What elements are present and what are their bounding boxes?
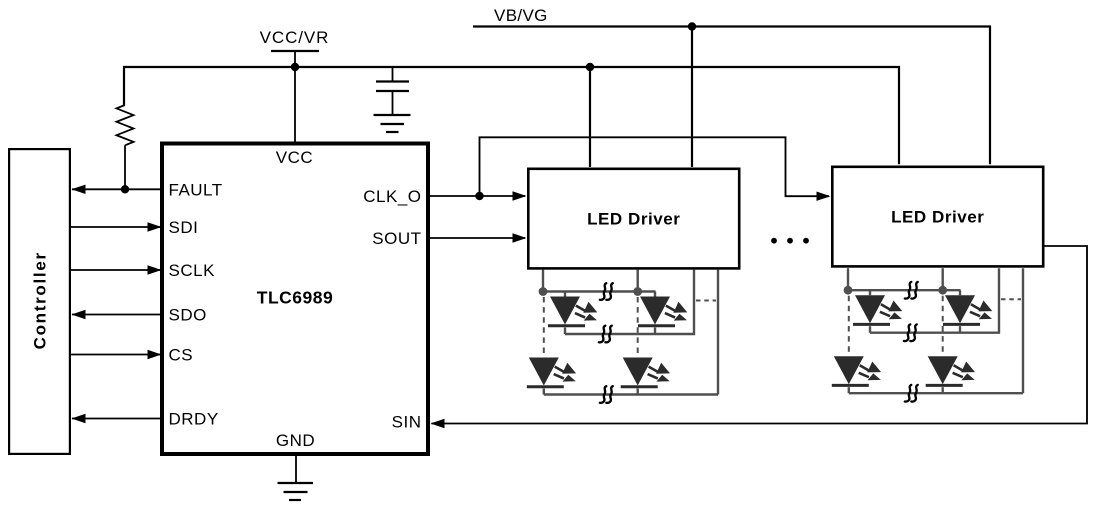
wire matrix1 dashed column B <box>637 297 639 358</box>
LED D8 <box>926 356 975 385</box>
arrow CLK_O into LED driver 1 <box>513 191 527 200</box>
break mark matrix1 cathode row 2 <box>600 386 613 403</box>
wire cathode stub LED3 <box>543 389 545 395</box>
wire anode stub LED2 <box>654 292 656 297</box>
node CLK_O junction <box>475 192 483 200</box>
wire VB/VG rail <box>473 27 990 165</box>
svg-text:SCLK: SCLK <box>169 261 216 280</box>
LED D6 <box>943 295 992 324</box>
wire FAULT <box>72 188 162 190</box>
break mark matrix1 anode row <box>600 283 613 300</box>
wire SDI <box>71 226 160 228</box>
wire cathode stub LED6 <box>959 326 961 333</box>
wire matrix1 dashed continuation row <box>696 300 716 302</box>
svg-text:TLC6989: TLC6989 <box>257 288 333 308</box>
LED D3 <box>527 358 576 387</box>
LED D5 <box>853 295 902 324</box>
wire matrix2 anode row <box>848 289 961 291</box>
wire anode stub LED5 <box>869 290 871 295</box>
resistor R1 <box>117 105 134 145</box>
LED D1 <box>548 297 597 326</box>
wire matrix1 right column <box>717 270 719 395</box>
arrow SCLK into TLC6989 <box>148 265 162 274</box>
ellipsis continuation dots <box>771 238 809 244</box>
wire VCC rail <box>124 67 899 164</box>
node matrix1 dot B <box>633 287 642 296</box>
LED matrix 1 <box>527 270 718 403</box>
op-amp U1 TLC6989 box <box>162 144 428 455</box>
wire matrix2 column B <box>942 268 944 290</box>
ground at capacitor <box>374 115 411 132</box>
LED driver 1 box <box>528 169 739 269</box>
svg-text:CS: CS <box>169 346 194 365</box>
svg-text:Controller: Controller <box>31 251 50 349</box>
break mark matrix2 cathode row 1 <box>904 324 917 341</box>
arrow FAULT into controller <box>72 185 86 194</box>
wire SIN return from LED driver 2 <box>432 246 1088 424</box>
node junction on VB/VG rail <box>688 22 696 30</box>
wire matrix1 dashed column A <box>543 297 545 358</box>
svg-text:VCC: VCC <box>276 148 313 167</box>
wire matrix1 cathode row 2 <box>544 393 718 395</box>
wire VCC to TLC6989 <box>294 67 296 142</box>
LED D2 <box>638 297 687 326</box>
wire matrix2 dashed column A <box>848 296 850 357</box>
wire matrix2 right column <box>1022 268 1024 393</box>
wire VCC to LED driver 1 <box>589 67 591 167</box>
svg-text:SDI: SDI <box>169 218 199 237</box>
wire cathode stub LED8 <box>942 387 944 393</box>
wire cathode stub LED4 <box>637 389 639 395</box>
wire matrix2 dashed continuation row <box>1001 298 1021 300</box>
wire cathode stub LED7 <box>848 387 850 393</box>
arrow SIN into TLC6989 <box>431 419 445 428</box>
break mark matrix1 cathode row 1 <box>599 326 612 343</box>
arrow CLK into LED driver 2 <box>817 192 831 201</box>
wire cathode stub LED5 <box>869 326 871 333</box>
wire GND stub of TLC6989 <box>295 456 297 483</box>
svg-text:LED Driver: LED Driver <box>891 208 984 227</box>
wire CLK_O to LED driver 1 <box>430 195 525 197</box>
wire matrix2 column A <box>847 268 849 290</box>
supply bar VCC/VR <box>271 50 319 52</box>
node VCC stub junction <box>291 63 299 71</box>
node matrix1 dot A <box>539 287 548 296</box>
wire cathode stub LED2 <box>654 328 656 335</box>
LED driver 2 box <box>832 167 1043 267</box>
svg-text:SOUT: SOUT <box>372 229 421 248</box>
wire matrix2 dashed column B <box>942 296 944 357</box>
wire SCLK <box>71 269 160 271</box>
node matrix2 dot A <box>844 286 853 295</box>
node matrix2 dot B <box>938 286 947 295</box>
wire resistor to FAULT <box>124 145 126 189</box>
ground at TLC6989 <box>278 483 314 500</box>
break mark matrix2 anode row <box>905 282 918 299</box>
arrow SOUT into LED driver 1 <box>513 233 527 242</box>
svg-text:GND: GND <box>276 431 315 450</box>
wire matrix2 cathode row 1 <box>870 268 999 333</box>
node junction to LED driver 1 <box>586 63 594 71</box>
arrow CS into TLC6989 <box>148 350 162 359</box>
controller box <box>9 149 70 454</box>
LED D7 <box>832 356 881 385</box>
svg-text:CLK_O: CLK_O <box>363 187 421 206</box>
wire VB/VG to LED driver 1 <box>691 27 693 168</box>
svg-text:SIN: SIN <box>392 413 422 432</box>
arrow DRDY into controller <box>72 414 86 423</box>
wire SOUT to LED driver 1 <box>430 237 525 239</box>
wire DRDY <box>72 418 162 420</box>
svg-text:VB/VG: VB/VG <box>494 6 548 25</box>
svg-text:VCC/VR: VCC/VR <box>260 28 330 47</box>
arrow SDO into controller <box>72 310 86 319</box>
wire matrix2 cathode row 2 <box>849 392 1023 394</box>
svg-text:LED Driver: LED Driver <box>587 210 680 229</box>
svg-text:DRDY: DRDY <box>169 410 219 429</box>
wire matrix1 cathode row 1 <box>565 270 694 335</box>
wire matrix1 column B <box>637 270 639 292</box>
wire SDO <box>72 314 162 316</box>
LED D4 <box>621 358 670 387</box>
wire CS <box>71 354 160 356</box>
wire VCC/VR stub <box>294 51 296 67</box>
wire cathode stub LED1 <box>564 328 566 335</box>
svg-text:FAULT: FAULT <box>169 180 223 199</box>
wire CLK_O branch to LED driver 2 <box>480 137 830 196</box>
node FAULT junction <box>121 185 129 193</box>
wire anode stub LED6 <box>959 290 961 295</box>
wire matrix1 anode row <box>543 290 656 292</box>
svg-text:SDO: SDO <box>169 306 207 325</box>
wire anode stub LED1 <box>564 292 566 297</box>
arrow SDI into TLC6989 <box>148 222 162 231</box>
capacitor C1 <box>376 67 409 115</box>
LED matrix 2 <box>832 268 1023 401</box>
wire matrix1 column A <box>542 270 544 292</box>
break mark matrix2 cathode row 2 <box>905 385 918 402</box>
